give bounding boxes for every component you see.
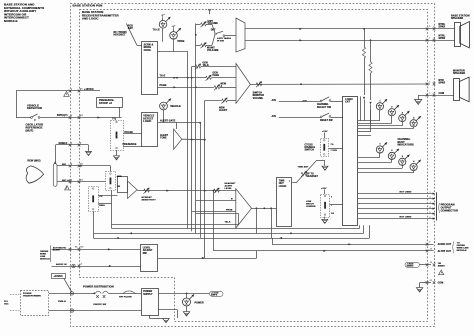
svg-text:7: 7: [429, 38, 430, 40]
wire alert gate: [158, 122, 177, 124]
svg-text:SUPPLY: SUPPLY: [143, 294, 153, 296]
pot NEW A input: [214, 86, 220, 89]
svg-text:ALERT GATE: ALERT GATE: [160, 119, 176, 122]
bus wire 1: [187, 51, 189, 228]
svg-text:J/4: J/4: [80, 162, 83, 165]
svg-text:JUMPER: JUMPER: [306, 206, 316, 208]
label program output connector: [438, 203, 441, 213]
svg-text:+13VDC: +13VDC: [54, 276, 63, 278]
wire jumper to logic box: [330, 204, 343, 206]
svg-text:4: 4: [71, 162, 72, 165]
svg-text:SPKR: SPKR: [439, 82, 446, 84]
svg-text:TIME ANT: TIME ANT: [298, 165, 309, 168]
svg-text:NOT USED: NOT USED: [400, 192, 412, 194]
svg-text:VEHICLE: VEHICLE: [170, 106, 181, 108]
svg-text:AMMO: AMMO: [438, 265, 445, 268]
lamp VEHICLE lead: [163, 110, 165, 123]
ground rf headset: [324, 161, 326, 166]
node junction bus3: [195, 34, 197, 36]
lamp POWER: [186, 293, 188, 297]
ground shield: [86, 152, 92, 156]
op-amp headset: [236, 189, 252, 228]
wire to base speaker lo: [245, 40, 454, 42]
svg-text:SPEAKER: SPEAKER: [453, 72, 465, 75]
svg-text:PWR-N: PWR-N: [58, 301, 66, 303]
svg-text:IF GIN: IF GIN: [217, 41, 224, 43]
wire pwr neutral: [49, 310, 141, 312]
svg-text:3: 3: [429, 92, 430, 94]
svg-text:AMB: AMB: [117, 175, 122, 178]
box vehicle detect logic: [142, 113, 158, 147]
svg-text:REW (MIC): REW (MIC): [28, 159, 41, 162]
svg-text:INDICATORS: INDICATORS: [398, 144, 414, 147]
pot headset alert level: [214, 189, 220, 192]
wire +13VDC feed: [71, 90, 100, 92]
svg-text:MIC LO: MIC LO: [62, 180, 70, 182]
wire headset amp input PRSB: [192, 211, 236, 213]
svg-text:-13V: -13V: [271, 100, 277, 102]
svg-text:TRANSFORMER: TRANSFORMER: [23, 295, 41, 298]
wire nest 1: [359, 225, 361, 228]
jumper J1 pulse/presence: [115, 118, 117, 121]
svg-text:AUDIO OUT: AUDIO OUT: [438, 243, 452, 246]
svg-text:MODULE: MODULE: [40, 259, 50, 261]
wire BRY to detect logic: [40, 117, 122, 119]
lamp busy 1: [376, 146, 383, 153]
wire link talk to alert out: [213, 238, 215, 251]
pot NEW ALERT input: [222, 99, 228, 102]
svg-text:BRY(QT): BRY(QT): [57, 114, 68, 117]
svg-text:LOGIC: LOGIC: [279, 186, 287, 188]
svg-text:SPKR: SPKR: [439, 38, 446, 40]
op-amp mic preamp: [128, 181, 138, 199]
switch on/off: [95, 291, 101, 293]
wire mixer output: [250, 83, 430, 85]
svg-text:TX-E: TX-E: [160, 75, 166, 78]
wire monitor speaker return: [418, 95, 454, 97]
ground com: [416, 288, 422, 292]
svg-text:BASE STATION PSN: BASE STATION PSN: [73, 3, 103, 7]
svg-text:SPEAKER: SPEAKER: [451, 17, 463, 20]
pot rf headset level: [301, 172, 307, 175]
bus wire 5: [204, 101, 206, 259]
svg-text:-18: -18: [429, 262, 432, 264]
svg-text:LEVEL: LEVEL: [225, 188, 233, 190]
svg-text:8: 8: [434, 38, 435, 40]
svg-text:TALK: TALK: [225, 221, 231, 224]
svg-text:DISABLE: DISABLE: [305, 146, 316, 149]
svg-text:4: 4: [434, 91, 435, 94]
lamp TX with antenna: [162, 15, 164, 18]
ground line jumper: [324, 217, 326, 219]
svg-text:HEADSET: HEADSET: [114, 34, 127, 37]
svg-text:NOT USED: NOT USED: [400, 217, 412, 219]
svg-text:PAGE: PAGE: [160, 84, 167, 87]
antenna mark above DRT: [209, 11, 211, 14]
wire chas ammo: [420, 264, 432, 266]
lamp VEHICLE: [160, 102, 168, 110]
program output wires: [358, 193, 434, 195]
inner dashed boundary BASE STATION RCVR/XMTR AND LOGIC: [80, 10, 428, 322]
svg-text:POWER DISTRIBUTION: POWER DISTRIBUTION: [83, 284, 114, 288]
svg-text:5: 5: [71, 179, 72, 181]
pot MONIT VOLUME: [201, 44, 207, 47]
svg-text:ALTRT OUT: ALTRT OUT: [438, 250, 452, 253]
op-amp mixer: [236, 64, 250, 104]
wire alert tone out: [182, 138, 205, 141]
tag +13VDC: [52, 274, 66, 279]
svg-text:SWITCH: SWITCH: [253, 92, 263, 94]
svg-text:COM: COM: [439, 93, 445, 95]
resistor R1 drop: [364, 29, 366, 47]
lamp lead PRSE: [173, 39, 175, 51]
svg-text:6: 6: [430, 217, 431, 219]
svg-text:A/1: A/1: [80, 88, 83, 91]
ground power supply: [163, 319, 169, 323]
svg-text:PAGE: PAGE: [213, 74, 220, 77]
loop switch: [31, 117, 33, 119]
svg-text:6: 6: [434, 26, 435, 28]
lamp busy 4: [410, 163, 417, 170]
svg-text:2: 2: [71, 115, 72, 117]
wire alert out: [213, 250, 433, 252]
wire headset amp input B: [196, 200, 236, 202]
svg-text:VOLUME: VOLUME: [208, 23, 219, 25]
wire drop from handset: [111, 204, 113, 229]
svg-text:TALK: TALK: [203, 64, 210, 67]
lamp call 2: [388, 109, 395, 116]
svg-text:-12: -12: [429, 248, 432, 250]
svg-text:K/2: K/2: [80, 179, 83, 181]
svg-text:SPKR: SPKR: [439, 27, 446, 29]
wire mic lo: [57, 181, 106, 183]
pot GEN PAGE input: [206, 76, 212, 79]
wire power supply out: [158, 293, 209, 295]
svg-text:DETECTOR: DETECTOR: [27, 106, 42, 110]
logic box U1: [343, 97, 358, 226]
svg-text:9: 9: [429, 242, 430, 244]
microphone: [26, 166, 43, 183]
vehicle detector loop: [16, 90, 71, 92]
svg-text:ADJUST: ADJUST: [143, 249, 153, 252]
svg-text:(MUT): (MUT): [26, 128, 34, 132]
mic capsule: [53, 164, 57, 187]
wire level adjust out: [158, 258, 257, 260]
jumper handset tip/ring: [89, 187, 99, 212]
wire drop from headset out: [256, 208, 258, 233]
svg-text:STOOP +5: STOOP +5: [99, 102, 112, 105]
horn transducer: [236, 18, 245, 52]
svg-text:RING: RING: [99, 205, 105, 207]
svg-text:A: A: [221, 85, 223, 88]
svg-text:PULSE: PULSE: [125, 131, 134, 134]
svg-text:SELECT SW: SELECT SW: [317, 107, 332, 109]
call indicator fan-out: [358, 120, 380, 122]
svg-text:CHANNEL: CHANNEL: [317, 103, 329, 106]
power transformer dashed box: [21, 291, 49, 316]
svg-text:MODULE: MODULE: [457, 250, 467, 252]
svg-text:LOGIC: LOGIC: [143, 120, 151, 123]
box level adjust: [141, 245, 158, 272]
svg-text:2: 2: [434, 81, 435, 83]
monitor speaker pin label: [426, 83, 429, 86]
wire rf to headset: [292, 182, 296, 184]
svg-text:HEADSET: HEADSET: [307, 175, 319, 178]
svg-text:AND LOGIC: AND LOGIC: [82, 17, 98, 21]
svg-text:1: 1: [430, 192, 431, 194]
wire com out: [420, 282, 431, 284]
lamp call 4: [410, 120, 417, 127]
svg-text:E/2: E/2: [80, 115, 83, 117]
bus wire 3: [195, 23, 197, 233]
bus wire 4: [200, 123, 202, 238]
wire audio in: [52, 266, 141, 268]
svg-text:7 STB: 7 STB: [331, 150, 338, 152]
svg-text:MONITOR: MONITOR: [253, 95, 265, 97]
box power supply: [142, 289, 159, 316]
svg-text:5: 5: [430, 212, 431, 214]
warning triangle shield: [65, 186, 70, 190]
pot SWITCH MONITOR VOLUME: [256, 83, 262, 86]
wire ctcss to logic: [329, 148, 344, 150]
wire TX-E output: [158, 77, 206, 79]
wire PULSE: [123, 133, 142, 135]
lamp lead TX: [162, 28, 164, 42]
lamp busy 2: [388, 152, 395, 159]
ground power lamp: [183, 312, 189, 316]
lamp call 3: [399, 115, 406, 122]
svg-text:POWER: POWER: [195, 302, 204, 304]
svg-text:ALERT: ALERT: [53, 249, 61, 252]
svg-text:J: J: [434, 242, 435, 244]
tag chas ammo: [405, 262, 420, 267]
svg-text:J: J: [434, 280, 435, 282]
svg-text:ANT: ANT: [128, 27, 134, 30]
ground monitor return: [415, 100, 422, 105]
svg-text:-13V: -13V: [271, 116, 277, 118]
svg-text:TONE: TONE: [160, 137, 167, 139]
title block external components: [4, 3, 44, 23]
svg-text:CONNECTOR: CONNECTOR: [441, 208, 458, 212]
warning triangle ammo: [439, 270, 444, 275]
svg-text:2: 2: [430, 197, 431, 199]
op-amp alert tone: [174, 129, 182, 149]
svg-text:DRT: DRT: [211, 30, 216, 32]
tag load amps: [210, 291, 224, 296]
wire handset link: [98, 195, 117, 197]
lamp PRSE with antenna: [173, 26, 175, 29]
lamp busy 3: [399, 158, 406, 165]
pot GEN TALK input: [195, 65, 201, 68]
wire to base speaker hi: [245, 28, 454, 30]
svg-text:1: 1: [429, 81, 430, 83]
svg-text:VOL/LIME: VOL/LIME: [207, 50, 219, 52]
svg-text:MIC: MIC: [62, 164, 67, 166]
svg-text:RESET SW: RESET SW: [320, 120, 333, 122]
svg-text:SENSITIVITY: SENSITIVITY: [142, 199, 157, 201]
svg-text:MODULE: MODULE: [4, 19, 18, 23]
svg-text:ALERT: ALERT: [160, 134, 169, 137]
box time out logic: [277, 178, 292, 227]
svg-text:COM: COM: [438, 283, 444, 285]
svg-text:(↑): (↑): [112, 117, 115, 120]
svg-text:+13V: +13V: [322, 131, 328, 133]
busy indicator fan-out: [358, 157, 380, 159]
wire headset amp input TALK loop: [196, 213, 239, 215]
label to order wire line module: [452, 242, 455, 254]
svg-text:CKT: CKT: [345, 102, 350, 104]
wire pwr hot: [49, 293, 95, 295]
wire nest 3: [369, 225, 371, 238]
bus wire 2: [191, 78, 193, 232]
svg-text:RFI FILTER: RFI FILTER: [119, 297, 132, 299]
svg-text:VAC: VAC: [4, 303, 9, 306]
wire drop headset level to alert out: [213, 191, 215, 238]
wire headset amp out: [252, 208, 277, 210]
svg-text:PRSE: PRSE: [178, 40, 185, 43]
svg-text:PRSB: PRSB: [226, 209, 233, 211]
svg-text:ON/OFF SW: ON/OFF SW: [93, 304, 107, 306]
warning triangle on loop: [64, 91, 70, 96]
resistor R2 drop: [370, 40, 372, 62]
box scrn & mode code: [142, 42, 158, 95]
wire mic hi: [57, 165, 111, 167]
svg-text:3: 3: [430, 202, 431, 204]
mic preamp box: [118, 177, 128, 193]
rfi filter: [109, 293, 142, 295]
svg-text:T/R: T/R: [117, 186, 121, 188]
wire alert in: [52, 249, 141, 251]
outer dashed boundary BASE STATION PSN: [71, 4, 435, 327]
svg-text:+13VDC: +13VDC: [84, 88, 94, 91]
svg-text:AUDIO IN: AUDIO IN: [56, 263, 67, 266]
pot headset sensitivity: [137, 190, 236, 192]
svg-text:PRESENCE: PRESENCE: [123, 143, 137, 146]
wire audio out: [272, 244, 434, 246]
ground jumper J1: [116, 150, 118, 155]
pot HWY VOLUME: [201, 23, 207, 26]
svg-text:SHIELD: SHIELD: [59, 143, 68, 145]
svg-text:ALERT: ALERT: [219, 109, 228, 112]
jumper handset T/R: [106, 172, 116, 191]
svg-text:1: 1: [71, 89, 72, 91]
wire ps ground: [149, 315, 151, 318]
svg-text:AMPS: AMPS: [211, 294, 218, 297]
wire PRESENCE: [123, 146, 142, 148]
node riser to presence stoop: [119, 107, 121, 118]
svg-text:CODE: CODE: [144, 49, 152, 52]
svg-text:SWITCH: SWITCH: [305, 150, 315, 152]
presence stoop box: [97, 98, 123, 108]
svg-text:+13V: +13V: [321, 188, 327, 190]
svg-text:VOLUME: VOLUME: [253, 98, 264, 100]
svg-text:TIP: TIP: [99, 196, 103, 198]
svg-text:-13: -13: [429, 280, 432, 282]
svg-text:3: 3: [71, 143, 72, 145]
wire RCU antenna: [126, 23, 137, 45]
wire nest 2: [363, 225, 365, 233]
lamp call 1: [376, 103, 383, 110]
svg-text:4: 4: [430, 206, 431, 209]
svg-text:TX-LE: TX-LE: [153, 29, 161, 32]
svg-text:AMMO: AMMO: [407, 265, 414, 268]
svg-text:5: 5: [429, 26, 430, 28]
wire PAGE output: [158, 87, 214, 89]
wire ps right: [158, 309, 177, 311]
